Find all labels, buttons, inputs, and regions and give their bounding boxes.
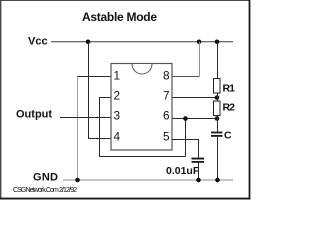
svg-text:Vcc: Vcc: [28, 36, 48, 48]
wire link up to pin 6 node (vertical): [185, 119, 187, 157]
svg-text:0.01uF: 0.01uF: [166, 165, 200, 177]
svg-text:4: 4: [114, 130, 121, 144]
capacitor C plate bottom: [211, 135, 223, 137]
wire GND rail: [63, 179, 233, 181]
junction node GND / pin1 wire: [75, 178, 80, 183]
wire pin 2 down (vertical): [99, 98, 101, 157]
wire pin 1 stub: [77, 76, 111, 78]
wire pin2-pin6 link (horizontal): [99, 156, 186, 158]
wire pin 8 up to Vcc (vertical): [199, 42, 201, 77]
junction node GND / 0.01uF: [196, 178, 201, 183]
wire Vcc to pin 4 (vertical): [88, 42, 90, 139]
wire pin 8 stub: [172, 76, 200, 78]
wire pin 2 stub: [99, 97, 111, 99]
wire R2 bottom to C top (vertical): [217, 116, 219, 133]
svg-text:8: 8: [163, 69, 170, 83]
svg-text:CSGNetwork.Com 2/12/92: CSGNetwork.Com 2/12/92: [13, 187, 77, 194]
svg-text:C: C: [224, 130, 232, 142]
wire pin 5 stub: [172, 139, 199, 141]
wire pin 1 to GND (vertical): [77, 77, 79, 181]
svg-text:R2: R2: [223, 102, 236, 114]
junction node Vcc / R1 wire: [215, 40, 220, 45]
svg-text:2: 2: [114, 89, 121, 103]
svg-text:7: 7: [163, 89, 170, 103]
junction node Vcc / pin4 wire: [86, 40, 91, 45]
wire C bottom to GND (vertical): [217, 137, 219, 180]
capacitor 0.01uF plate top: [192, 158, 205, 160]
svg-text:3: 3: [114, 109, 121, 123]
svg-text:1: 1: [114, 69, 121, 83]
svg-text:5: 5: [163, 130, 170, 144]
wire pin 6 stub to R2/C node: [172, 118, 218, 120]
capacitor C plate top: [211, 132, 223, 134]
wire pin 4 stub: [88, 138, 111, 140]
wire pin 5 down to 0.01uF cap (vertical): [198, 140, 200, 159]
wire 0.01uF bottom to GND (vertical): [198, 163, 200, 181]
svg-text:GND: GND: [33, 172, 58, 184]
wire Vcc rail: [51, 41, 233, 43]
svg-text:R1: R1: [223, 83, 236, 95]
wire R1 bottom to R2 top (vertical): [217, 93, 219, 101]
svg-text:6: 6: [163, 109, 170, 123]
junction node Vcc / pin8 wire: [197, 40, 202, 45]
junction node pin7 / R1 / R2: [215, 95, 220, 100]
wire Output to pin 3: [60, 117, 111, 119]
wire pin 7 stub to R1/R2 node: [172, 97, 217, 99]
wire Vcc to R1 top (vertical): [217, 42, 219, 79]
resistor R2: [214, 101, 221, 116]
junction node pin6 / link wire: [183, 116, 188, 121]
svg-text:Output: Output: [16, 109, 52, 121]
svg-text:Astable Mode: Astable Mode: [82, 10, 157, 24]
junction node pin6 / R2 / C: [215, 116, 220, 121]
resistor R1: [214, 79, 221, 94]
junction node GND / C: [215, 178, 220, 183]
capacitor 0.01uF plate bottom: [192, 161, 205, 163]
IC U1 555 timer body: [111, 64, 172, 151]
